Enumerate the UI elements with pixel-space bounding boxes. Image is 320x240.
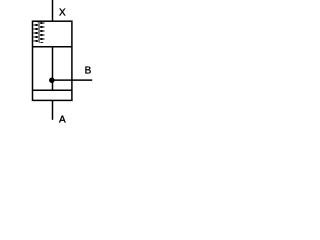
svg-text:X: X — [59, 7, 66, 18]
wire center vertical — [52, 47, 54, 91]
valve body outer box — [33, 21, 72, 100]
divider line lower — [33, 89, 72, 91]
svg-text:A: A — [59, 114, 66, 125]
wire X port (top vertical) — [52, 0, 54, 21]
spring — [34, 22, 44, 43]
wire A port (bottom vertical) — [52, 100, 54, 119]
junction dot — [49, 77, 55, 83]
svg-text:B: B — [85, 65, 92, 76]
divider line upper — [33, 46, 72, 48]
wire B port (horizontal) — [53, 79, 93, 81]
